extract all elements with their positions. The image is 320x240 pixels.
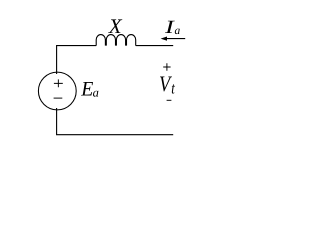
terminal minus (right) xyxy=(167,99,172,101)
terminal plus (right) xyxy=(163,63,170,71)
plus inside source xyxy=(54,79,63,87)
inductor X (4 bumps) xyxy=(96,35,136,46)
minus inside source xyxy=(54,97,63,99)
current arrow Ia (pointing left) xyxy=(165,38,186,40)
label Ia xyxy=(165,21,175,33)
label Vt xyxy=(160,77,172,92)
label Ea xyxy=(81,82,93,96)
label X xyxy=(108,19,122,33)
wire top-left: vertical from source up and horizontal to inductor xyxy=(57,46,97,74)
wire from inductor to right terminal xyxy=(136,45,174,47)
wire bottom: vertical from source down and horizontal to right xyxy=(57,108,174,135)
voltage source Ea circle xyxy=(38,72,76,110)
